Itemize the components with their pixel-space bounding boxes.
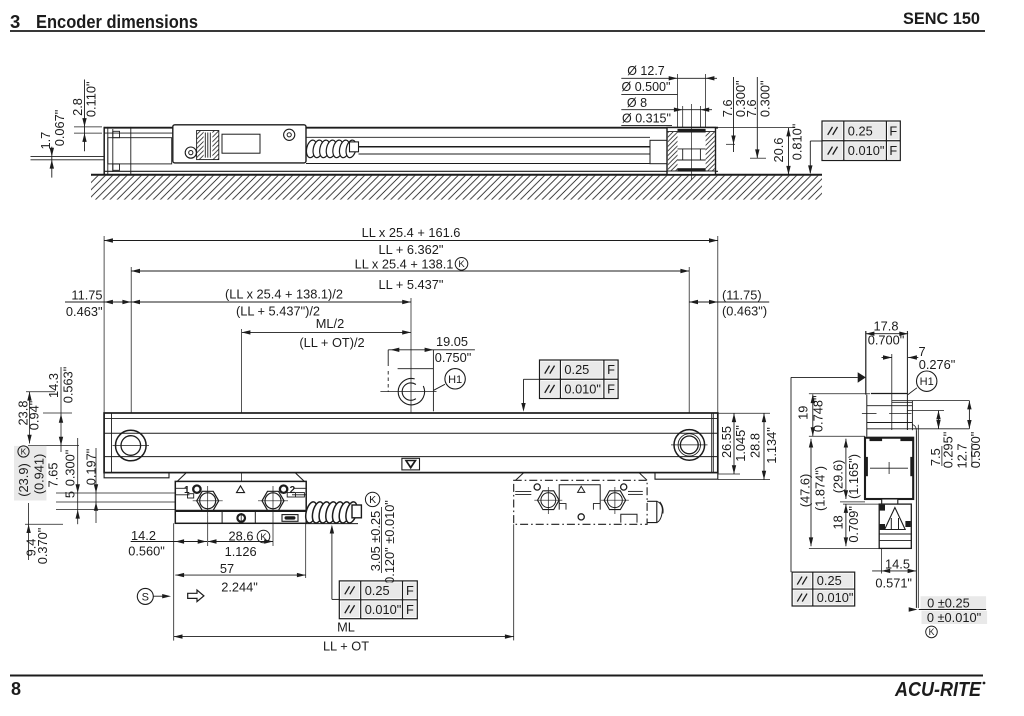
svg-text:2.244": 2.244" [221,580,258,595]
svg-text:0.276": 0.276" [919,357,956,372]
svg-text:1.134": 1.134" [764,427,779,464]
svg-text:LL x 25.4 + 138.1: LL x 25.4 + 138.1 [355,257,454,272]
svg-text:0.709": 0.709" [846,506,861,543]
svg-text:1.045": 1.045" [733,425,748,462]
svg-text:14.3: 14.3 [46,373,61,398]
svg-text:(0.463"): (0.463") [722,304,767,319]
svg-text:ML/2: ML/2 [316,316,344,331]
svg-text:F: F [607,381,615,396]
svg-text:Ø 8: Ø 8 [627,96,647,110]
svg-text:20.6: 20.6 [771,138,786,163]
svg-text:Ø 0.315": Ø 0.315" [622,112,671,126]
svg-text:ACU-RITE: ACU-RITE [894,679,981,701]
svg-text:19: 19 [795,406,810,420]
svg-text:ML: ML [337,620,355,635]
svg-text:(1.165"): (1.165") [846,454,861,499]
svg-text:(1.874"): (1.874") [812,466,827,511]
svg-text:0.010": 0.010" [564,381,601,396]
svg-text:19.05: 19.05 [436,334,468,349]
svg-text:K: K [21,447,27,457]
svg-text:F: F [889,143,897,158]
svg-text:F: F [607,362,615,377]
svg-text:0.25: 0.25 [564,362,589,377]
svg-text:0.571": 0.571" [875,576,912,591]
svg-text:LL + 6.362": LL + 6.362" [379,242,444,257]
svg-text:(23.9): (23.9) [16,463,31,496]
svg-text:0.010": 0.010" [365,602,402,617]
svg-text:0.750": 0.750" [435,350,472,365]
svg-text:K: K [458,259,465,270]
svg-text:8: 8 [11,679,21,699]
svg-text:Encoder dimensions: Encoder dimensions [36,11,198,32]
svg-text:0.25: 0.25 [365,583,390,598]
svg-text:0.700": 0.700" [868,333,905,348]
svg-text:11.75: 11.75 [71,288,102,303]
svg-text:H1: H1 [448,374,462,386]
svg-text:0.067": 0.067" [52,110,67,147]
svg-text:(0.941): (0.941) [32,454,47,495]
svg-text:(29.6): (29.6) [830,460,845,493]
svg-text:(LL + 5.437")/2: (LL + 5.437")/2 [236,304,320,319]
svg-text:2.8: 2.8 [70,98,85,116]
svg-text:18: 18 [830,515,845,529]
svg-text:26.55: 26.55 [719,426,734,458]
svg-text:2: 2 [290,485,296,496]
svg-text:Ø 12.7: Ø 12.7 [627,64,665,78]
svg-text:LL x 25.4 + 161.6: LL x 25.4 + 161.6 [362,225,461,240]
svg-text:0.563": 0.563" [61,367,76,404]
svg-text:F: F [889,123,897,138]
svg-text:0.300": 0.300" [63,450,78,487]
svg-text:0.25: 0.25 [817,573,842,588]
svg-text:(11.75): (11.75) [722,288,762,303]
svg-text:(47.6): (47.6) [797,474,812,507]
svg-text:1.126: 1.126 [225,544,257,559]
svg-text:0.25: 0.25 [848,123,873,138]
svg-text:0.94": 0.94" [27,401,42,430]
svg-text:K: K [929,627,935,637]
svg-text:F: F [406,583,414,598]
svg-text:1.7: 1.7 [38,132,53,150]
svg-text:LL + 5.437": LL + 5.437" [379,277,444,292]
svg-text:0 ±0.010": 0 ±0.010" [927,610,981,625]
svg-text:0.120" ±0.010": 0.120" ±0.010" [382,500,397,584]
svg-text:S: S [142,592,149,604]
svg-text:0.010": 0.010" [817,590,854,605]
svg-text:5: 5 [63,491,78,498]
svg-text:0.500": 0.500" [968,432,983,469]
svg-text:3.05 ±0.25: 3.05 ±0.25 [368,511,383,571]
svg-text:LL + OT: LL + OT [323,639,369,654]
svg-text:28.8: 28.8 [747,433,762,458]
svg-text:0 ±0.25: 0 ±0.25 [927,596,970,611]
svg-text:14.2: 14.2 [131,528,156,543]
svg-text:H1: H1 [920,376,934,388]
svg-text:3: 3 [10,11,20,32]
svg-text:SENC 150: SENC 150 [903,9,980,28]
svg-text:57: 57 [220,561,234,576]
svg-text:17.8: 17.8 [874,319,899,334]
svg-text:0.463": 0.463" [66,304,103,319]
svg-text:0.300": 0.300" [757,81,772,118]
svg-text:0.810": 0.810" [789,124,804,161]
svg-text:7.65: 7.65 [46,463,61,488]
svg-text:0.560": 0.560" [128,544,165,559]
svg-text:0.370": 0.370" [35,528,50,565]
svg-text:F: F [406,602,414,617]
svg-text:0.010": 0.010" [848,143,885,158]
svg-text:0.748": 0.748" [810,396,825,433]
svg-text:(LL x 25.4 + 138.1)/2: (LL x 25.4 + 138.1)/2 [225,287,343,302]
svg-text:0.110": 0.110" [84,81,99,117]
svg-text:Ø 0.500": Ø 0.500" [622,80,671,94]
svg-text:(LL + OT)/2: (LL + OT)/2 [299,335,364,350]
svg-text:K: K [369,494,376,506]
